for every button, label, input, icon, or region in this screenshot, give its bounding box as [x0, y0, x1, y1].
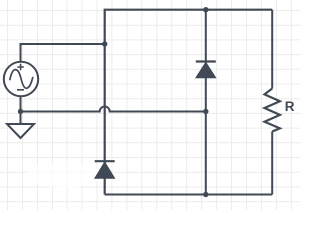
- diode D2 (bottom left): [95, 161, 115, 178]
- ground: [7, 112, 34, 139]
- wire left branch + top run: [105, 10, 273, 195]
- diode D1 (top): [196, 62, 216, 78]
- wire middle vertical branch (diode D1 branch): [205, 10, 207, 195]
- ac source V1: [4, 62, 38, 96]
- svg-text:R: R: [285, 99, 295, 114]
- node AC minus junction dot: [18, 109, 23, 114]
- wire from AC source minus terminal with hop over left branch: [21, 96, 206, 112]
- node top junction dot: [203, 7, 208, 12]
- wire from AC source plus terminal: [21, 44, 105, 62]
- wire right (resistor branch): [271, 10, 273, 195]
- resistor R zigzag: [265, 89, 280, 132]
- node bottom junction dot: [203, 192, 208, 197]
- node A junction dot: [102, 41, 107, 46]
- node middle junction dot: [203, 109, 208, 114]
- faint smudge artifact: [26, 162, 102, 188]
- wire bottom: [105, 194, 273, 196]
